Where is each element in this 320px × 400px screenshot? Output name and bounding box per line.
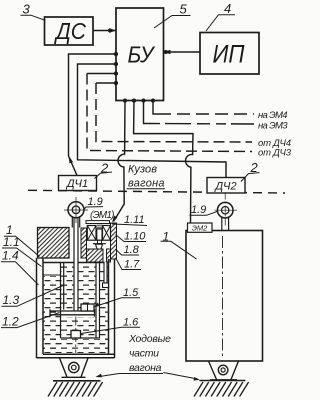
left labels column [1, 223, 64, 329]
svg-text:1.10: 1.10 [124, 231, 146, 243]
label 1.9 right [190, 204, 218, 216]
wire b2 from BU bottom to EM2 (hump over floor line) [134, 101, 193, 224]
svg-text:(ЭМ1): (ЭМ1) [90, 210, 115, 221]
eye joint 1.9 left [64, 197, 88, 223]
arrow to left bogie ground [98, 374, 119, 377]
svg-text:части: части [129, 348, 159, 360]
arrowhead on wire w1 pointing up [69, 156, 74, 164]
junction dot b2 on BU [132, 98, 136, 102]
block IP (power source) [200, 33, 259, 75]
svg-text:1.3: 1.3 [3, 293, 20, 307]
wire b3 to EM3 bus [144, 101, 151, 124]
wire IP to BU with arrow [164, 51, 201, 53]
text Khodovye chasti vagona with arrows [119, 333, 172, 374]
svg-text:5: 5 [180, 2, 188, 17]
svg-text:1.5: 1.5 [123, 287, 139, 299]
stem [98, 240, 102, 243]
centerline [222, 236, 224, 357]
label 1 right [161, 230, 197, 260]
EM1 outlet pipe [104, 262, 107, 284]
junction dots on BU edges (over box strokes) [108, 29, 167, 103]
svg-text:1.9: 1.9 [191, 204, 206, 216]
svg-text:1.4: 1.4 [2, 249, 19, 263]
left support pedestal [60, 358, 89, 377]
svg-text:Ходовые: Ходовые [128, 333, 171, 345]
svg-text:1.7: 1.7 [124, 259, 140, 271]
tank outer wall [37, 258, 115, 358]
svg-text:на ЭМ4: на ЭМ4 [258, 110, 288, 121]
wire b4 to EM4 bus [153, 101, 158, 115]
label 1.9 left [84, 196, 104, 210]
arrowhead DS wire into BU [109, 28, 116, 32]
arrowhead on wire b1 pointing down-left into EM1 [112, 216, 118, 223]
arrow to right bogie ground [164, 373, 198, 380]
junction dot w4 on BU [114, 81, 118, 85]
svg-text:Кузов: Кузов [128, 164, 157, 176]
left ground line [53, 380, 101, 382]
poppet [96, 244, 103, 249]
liquid level line [43, 274, 61, 276]
left support pin [69, 362, 79, 372]
wire w3 dashed from DCh3 [87, 73, 116, 75]
arrowhead IP wire into BU [164, 50, 171, 54]
cap hatched sliver right of rod slot [81, 228, 87, 258]
liquid fill regions [44, 264, 109, 353]
valve plate [93, 243, 106, 245]
EM1 solenoid valve assembly [86, 221, 111, 249]
left ground hatching [48, 382, 103, 397]
block DCh1 (sensor 1) [59, 176, 97, 191]
junction dot b4 on BU [151, 98, 155, 102]
label 3 with leader [21, 2, 46, 21]
svg-text:ИП: ИП [213, 41, 246, 69]
svg-text:на ЭМ3: на ЭМ3 [258, 121, 288, 132]
valve seat hatched block right [107, 249, 111, 262]
damper centerline below piston [75, 317, 77, 354]
svg-text:4: 4 [224, 1, 231, 16]
wire w2 from BU left to DCh2 (long line across body floor) [78, 64, 227, 178]
svg-text:ДЧ2: ДЧ2 [213, 181, 236, 193]
svg-text:ДС: ДС [53, 18, 87, 44]
right damper body (label 1) [186, 231, 263, 362]
right ground line [199, 380, 245, 382]
junction dot w3 on BU [114, 71, 118, 75]
svg-text:вагона: вагона [129, 362, 162, 374]
valve seat hatched block left [87, 249, 104, 262]
right coil with X [103, 226, 111, 241]
top plate [86, 221, 110, 224]
junction dot b3 on BU [141, 98, 145, 102]
eye joint 1.9 right [215, 193, 238, 231]
svg-text:ДЧ1: ДЧ1 [65, 178, 88, 190]
piston rod [74, 218, 78, 312]
junction dot b1 on BU [123, 98, 127, 102]
left coil with X [87, 226, 96, 241]
spring above plunger [97, 224, 102, 228]
right support pin [218, 365, 228, 375]
svg-text:БУ: БУ [128, 42, 156, 68]
text Kuzov vagona [127, 164, 166, 190]
block DS (speed sensor) [45, 17, 94, 45]
wire w4 dashed from DCh4 [96, 82, 116, 84]
wire w1 from BU left to DCh1 with up arrow [69, 54, 117, 176]
svg-text:от ДЧ3: от ДЧ3 [258, 148, 292, 159]
svg-text:1.8: 1.8 [124, 244, 140, 256]
block EM2 [188, 223, 213, 233]
right labels column [81, 214, 147, 334]
label 2 for DCh1 [95, 161, 113, 179]
bogie boundary dashed line [28, 190, 285, 193]
label 5 with leader [154, 2, 191, 29]
wire b1 from BU bottom to EM1 valve (hump over floor line) [114, 101, 126, 222]
pipe end flange [103, 283, 109, 288]
piston (label 1.2) [50, 309, 95, 316]
wire DS to BU with arrow [93, 30, 116, 32]
svg-text:1.6: 1.6 [123, 317, 139, 329]
svg-text:1.2: 1.2 [2, 315, 19, 329]
right support pedestal [209, 361, 239, 380]
svg-text:вагона: вагона [128, 178, 165, 190]
inner cylinder (label 1.3) [61, 263, 100, 339]
label 4 with leader [206, 1, 235, 31]
block DCh2 (sensor 2) [207, 178, 245, 194]
block BU (control unit) [116, 8, 164, 101]
cap hatched right strip (label 1.7) [111, 223, 117, 259]
rod upper stub below eye [72, 218, 79, 228]
cap hatched left part (label 1) [38, 228, 70, 259]
bottom valve (label 1.6) [71, 331, 81, 339]
svg-text:1.1: 1.1 [3, 235, 20, 249]
svg-text:ЭМ2: ЭМ2 [192, 224, 208, 233]
right ground hatching [194, 382, 249, 397]
plunger [97, 229, 102, 240]
svg-text:3: 3 [23, 2, 31, 17]
junction dot w1 on BU [114, 52, 118, 56]
label 2 for DCh2 [241, 160, 260, 182]
piston valve (label 1.5) [81, 304, 94, 311]
junction dot w2 on BU [114, 62, 118, 66]
